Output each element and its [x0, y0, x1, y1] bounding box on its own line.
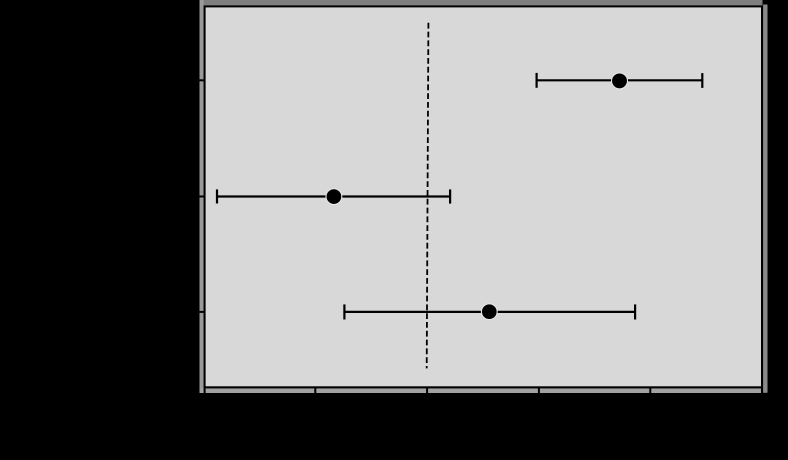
- plot area outer gray border band (top): [200, 0, 763, 6]
- plot area outer gray border band (bottom): [200, 388, 764, 393]
- plot area outer gray border band (right): [763, 5, 767, 393]
- x-axis tick marks (below bottom spine): [205, 388, 762, 397]
- plot area outer gray border band (left): [200, 0, 204, 393]
- marker row 1: [612, 73, 628, 89]
- marker row 2: [326, 189, 342, 205]
- dashed vertical reference line: [427, 23, 429, 369]
- marker row 3: [481, 304, 497, 320]
- plot area background with black frame: [205, 6, 762, 387]
- y-axis tick marks (left of left spine): [196, 80, 205, 312]
- error bar row 2 (middle): [217, 189, 450, 203]
- error bar row 1 (top): [537, 73, 703, 88]
- error bar row 3 (bottom): [344, 304, 635, 319]
